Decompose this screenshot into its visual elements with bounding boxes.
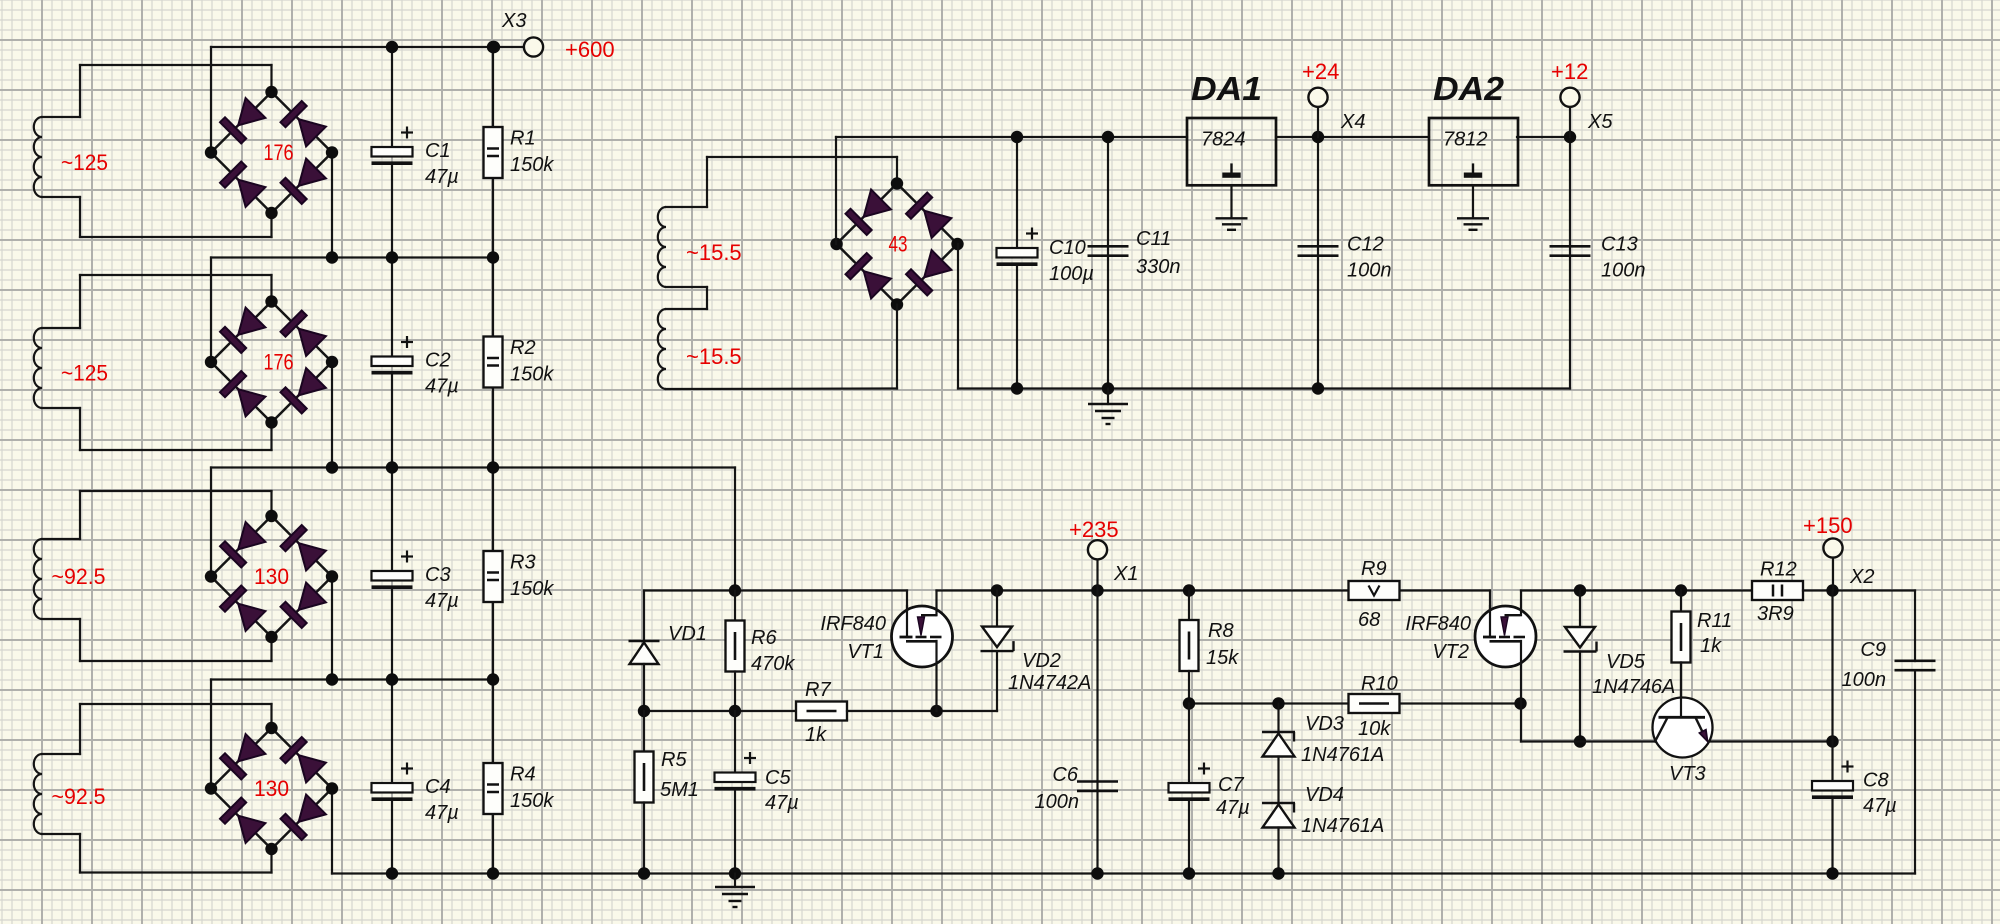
svg-text:43: 43: [889, 232, 908, 257]
svg-text:X3: X3: [501, 10, 526, 32]
svg-text:X1: X1: [1113, 563, 1138, 585]
svg-text:R7: R7: [805, 679, 831, 701]
svg-text:R12: R12: [1760, 559, 1797, 581]
svg-text:130: 130: [254, 776, 289, 801]
svg-text:X2: X2: [1849, 566, 1874, 588]
svg-text:47µ: 47µ: [425, 376, 459, 398]
svg-text:C3: C3: [425, 564, 451, 586]
svg-text:~15.5: ~15.5: [686, 344, 742, 369]
svg-text:R4: R4: [510, 764, 536, 786]
svg-text:1N4742A: 1N4742A: [1008, 672, 1091, 694]
svg-text:C4: C4: [425, 776, 451, 798]
svg-text:150k: 150k: [510, 578, 554, 600]
svg-text:C6: C6: [1052, 764, 1078, 786]
svg-text:C13: C13: [1601, 234, 1638, 256]
svg-text:DA2: DA2: [1433, 70, 1505, 107]
svg-text:IRF840: IRF840: [820, 613, 886, 635]
svg-text:68: 68: [1358, 609, 1380, 631]
svg-text:R2: R2: [510, 337, 536, 359]
svg-text:130: 130: [254, 564, 289, 589]
svg-text:DA1: DA1: [1191, 70, 1262, 107]
svg-text:10k: 10k: [1358, 718, 1391, 740]
svg-text:VT2: VT2: [1432, 641, 1469, 663]
svg-text:X4: X4: [1340, 111, 1365, 133]
svg-text:+600: +600: [565, 37, 615, 62]
svg-text:1N4761A: 1N4761A: [1301, 744, 1384, 766]
svg-text:5M1: 5M1: [660, 779, 699, 801]
svg-text:47µ: 47µ: [765, 792, 799, 814]
svg-text:C12: C12: [1347, 234, 1384, 256]
svg-text:+235: +235: [1069, 517, 1119, 542]
svg-text:330n: 330n: [1136, 256, 1181, 278]
svg-text:VD5: VD5: [1606, 651, 1646, 673]
svg-text:IRF840: IRF840: [1405, 613, 1471, 635]
svg-text:47µ: 47µ: [425, 166, 459, 188]
svg-text:R10: R10: [1361, 673, 1398, 695]
svg-text:C10: C10: [1049, 237, 1086, 259]
svg-text:1N4746A: 1N4746A: [1592, 676, 1675, 698]
svg-text:1k: 1k: [805, 724, 827, 746]
svg-text:C5: C5: [765, 767, 791, 789]
svg-text:VD2: VD2: [1022, 650, 1061, 672]
svg-text:R9: R9: [1361, 558, 1387, 580]
svg-text:~92.5: ~92.5: [52, 784, 106, 809]
svg-text:VD4: VD4: [1305, 784, 1344, 806]
svg-text:+12: +12: [1551, 59, 1588, 84]
svg-text:C2: C2: [425, 350, 451, 372]
svg-text:R6: R6: [751, 627, 777, 649]
svg-text:1k: 1k: [1700, 635, 1722, 657]
svg-text:47µ: 47µ: [1863, 795, 1897, 817]
svg-text:R8: R8: [1208, 620, 1234, 642]
svg-text:1N4761A: 1N4761A: [1301, 815, 1384, 837]
svg-text:C8: C8: [1863, 770, 1889, 792]
svg-text:150k: 150k: [510, 790, 554, 812]
svg-text:C7: C7: [1218, 774, 1244, 796]
svg-text:47µ: 47µ: [1216, 797, 1250, 819]
svg-text:VD3: VD3: [1305, 713, 1344, 735]
svg-text:176: 176: [264, 350, 294, 375]
svg-text:+24: +24: [1302, 59, 1339, 84]
svg-text:470k: 470k: [751, 653, 795, 675]
svg-text:100n: 100n: [1842, 669, 1887, 691]
svg-text:3R9: 3R9: [1757, 603, 1794, 625]
svg-text:47µ: 47µ: [425, 802, 459, 824]
svg-text:100n: 100n: [1035, 791, 1080, 813]
svg-text:~125: ~125: [61, 150, 108, 175]
svg-text:X5: X5: [1587, 111, 1613, 133]
svg-text:176: 176: [264, 140, 294, 165]
svg-text:R1: R1: [510, 128, 536, 150]
svg-text:100n: 100n: [1601, 260, 1646, 282]
svg-text:7824: 7824: [1201, 129, 1246, 151]
svg-text:R11: R11: [1697, 610, 1732, 632]
svg-text:VT1: VT1: [847, 641, 884, 663]
svg-text:VD1: VD1: [668, 623, 707, 645]
svg-text:R5: R5: [661, 749, 687, 771]
svg-text:100µ: 100µ: [1049, 263, 1094, 285]
svg-text:150k: 150k: [510, 364, 554, 386]
svg-text:~15.5: ~15.5: [686, 240, 742, 265]
svg-text:C11: C11: [1136, 228, 1171, 250]
svg-text:R3: R3: [510, 552, 536, 574]
svg-text:100n: 100n: [1347, 260, 1392, 282]
svg-text:+150: +150: [1803, 513, 1853, 538]
svg-text:C1: C1: [425, 140, 451, 162]
svg-text:150k: 150k: [510, 154, 554, 176]
svg-text:15k: 15k: [1206, 647, 1239, 669]
svg-text:VT3: VT3: [1669, 763, 1706, 785]
svg-text:~125: ~125: [61, 360, 108, 385]
svg-text:C9: C9: [1860, 639, 1886, 661]
svg-text:~92.5: ~92.5: [52, 564, 106, 589]
svg-text:47µ: 47µ: [425, 590, 459, 612]
svg-text:7812: 7812: [1443, 129, 1488, 151]
